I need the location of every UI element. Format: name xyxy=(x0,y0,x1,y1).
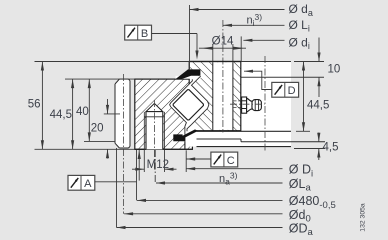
extra spigot arrow xyxy=(138,150,141,181)
mating part white block right of inner ring xyxy=(197,62,326,147)
dimension 40 xyxy=(76,79,115,141)
svg-text:56: 56 xyxy=(28,99,41,111)
grease nipple centerline xyxy=(230,103,265,105)
outer ring groove face lines xyxy=(170,79,193,135)
seal gap white above outer ring top right xyxy=(176,76,201,79)
datum flag C xyxy=(186,152,238,167)
svg-text:10: 10 xyxy=(328,63,341,75)
svg-text:D: D xyxy=(288,85,296,97)
grease passage hidden walls xyxy=(234,100,241,102)
svg-text:132 305a: 132 305a xyxy=(360,203,367,232)
bottom seal (black) xyxy=(173,129,198,141)
dimension 4,5 right xyxy=(294,133,339,161)
svg-text:20: 20 xyxy=(91,123,104,135)
svg-text:C: C xyxy=(227,155,235,167)
svg-text:44,5: 44,5 xyxy=(307,100,329,112)
dimension 44,5 left xyxy=(50,79,75,149)
inner ring groove face lines xyxy=(187,76,209,131)
top seal (black) xyxy=(175,69,200,79)
dimension Ø14 xyxy=(199,35,246,61)
svg-text:M12: M12 xyxy=(147,159,169,171)
dimension Ø d_a xyxy=(190,2,313,18)
dimension Ø d_0 xyxy=(124,208,311,225)
bottom gap white between rings xyxy=(185,124,197,147)
datum flag A xyxy=(68,175,137,190)
extension line top face (56 top / block top) xyxy=(35,61,190,63)
dimension Ø L_a xyxy=(155,150,311,194)
dimension Ø D_a xyxy=(117,222,314,239)
dimension Ø D_i xyxy=(186,163,313,180)
svg-text:4,5: 4,5 xyxy=(323,141,339,153)
extension for 480 spigot xyxy=(136,150,138,200)
svg-text:Ø Li: Ø Li xyxy=(289,18,310,34)
leader D xyxy=(244,71,272,89)
cylinder centerline (d0 reference) xyxy=(123,74,125,214)
svg-text:B: B xyxy=(141,28,148,40)
svg-text:A: A xyxy=(84,178,92,190)
outer ring (left, hatched) xyxy=(135,79,193,149)
dimension 10 right xyxy=(317,38,340,98)
extension for D_a xyxy=(116,148,118,228)
ring interface clearance gap (white band around roller) xyxy=(170,76,209,129)
leader B xyxy=(152,33,198,35)
inner ring top edge xyxy=(189,61,241,63)
dimension 56 xyxy=(28,62,44,150)
svg-text:Ø14: Ø14 xyxy=(212,35,234,47)
grease nipple xyxy=(230,97,265,113)
roller (diamond, chamfered corners) xyxy=(173,90,203,120)
hole centerline xyxy=(222,20,224,133)
leader A xyxy=(95,181,137,183)
Ø14 hole channel in inner ring xyxy=(213,20,233,133)
datum flag B xyxy=(125,25,199,59)
extension line bottom (left) xyxy=(35,148,135,150)
extension line for d_a / seal surface xyxy=(189,5,191,70)
dimension Ø L_i xyxy=(223,18,310,34)
leader C xyxy=(186,158,211,160)
extension line outer ring top xyxy=(65,78,135,80)
OD cylinder strip (outer ring outside surface, side view) xyxy=(115,74,130,214)
seal groove edge line under bottom seal xyxy=(184,141,186,149)
dimension 20 xyxy=(91,99,120,159)
datum flag D xyxy=(244,70,299,98)
svg-text:44,5: 44,5 xyxy=(50,109,72,121)
inner ring (right, hatched) xyxy=(189,62,241,131)
mating block centerline xyxy=(264,56,266,151)
outer ring bottom edge (interrupted by hole) xyxy=(135,148,145,150)
M12 hole centerline xyxy=(153,100,155,171)
dimension Ø480-0,5 xyxy=(137,194,336,211)
M12 tapped hole in outer ring xyxy=(144,100,164,171)
svg-text:Ø di: Ø di xyxy=(289,35,310,51)
dimension M12 xyxy=(132,150,177,172)
dimension 44,5 right xyxy=(296,62,329,132)
dimension Ø d_i xyxy=(241,35,310,61)
svg-text:40: 40 xyxy=(76,106,89,118)
extension for D_i (seal dia) xyxy=(185,150,187,172)
